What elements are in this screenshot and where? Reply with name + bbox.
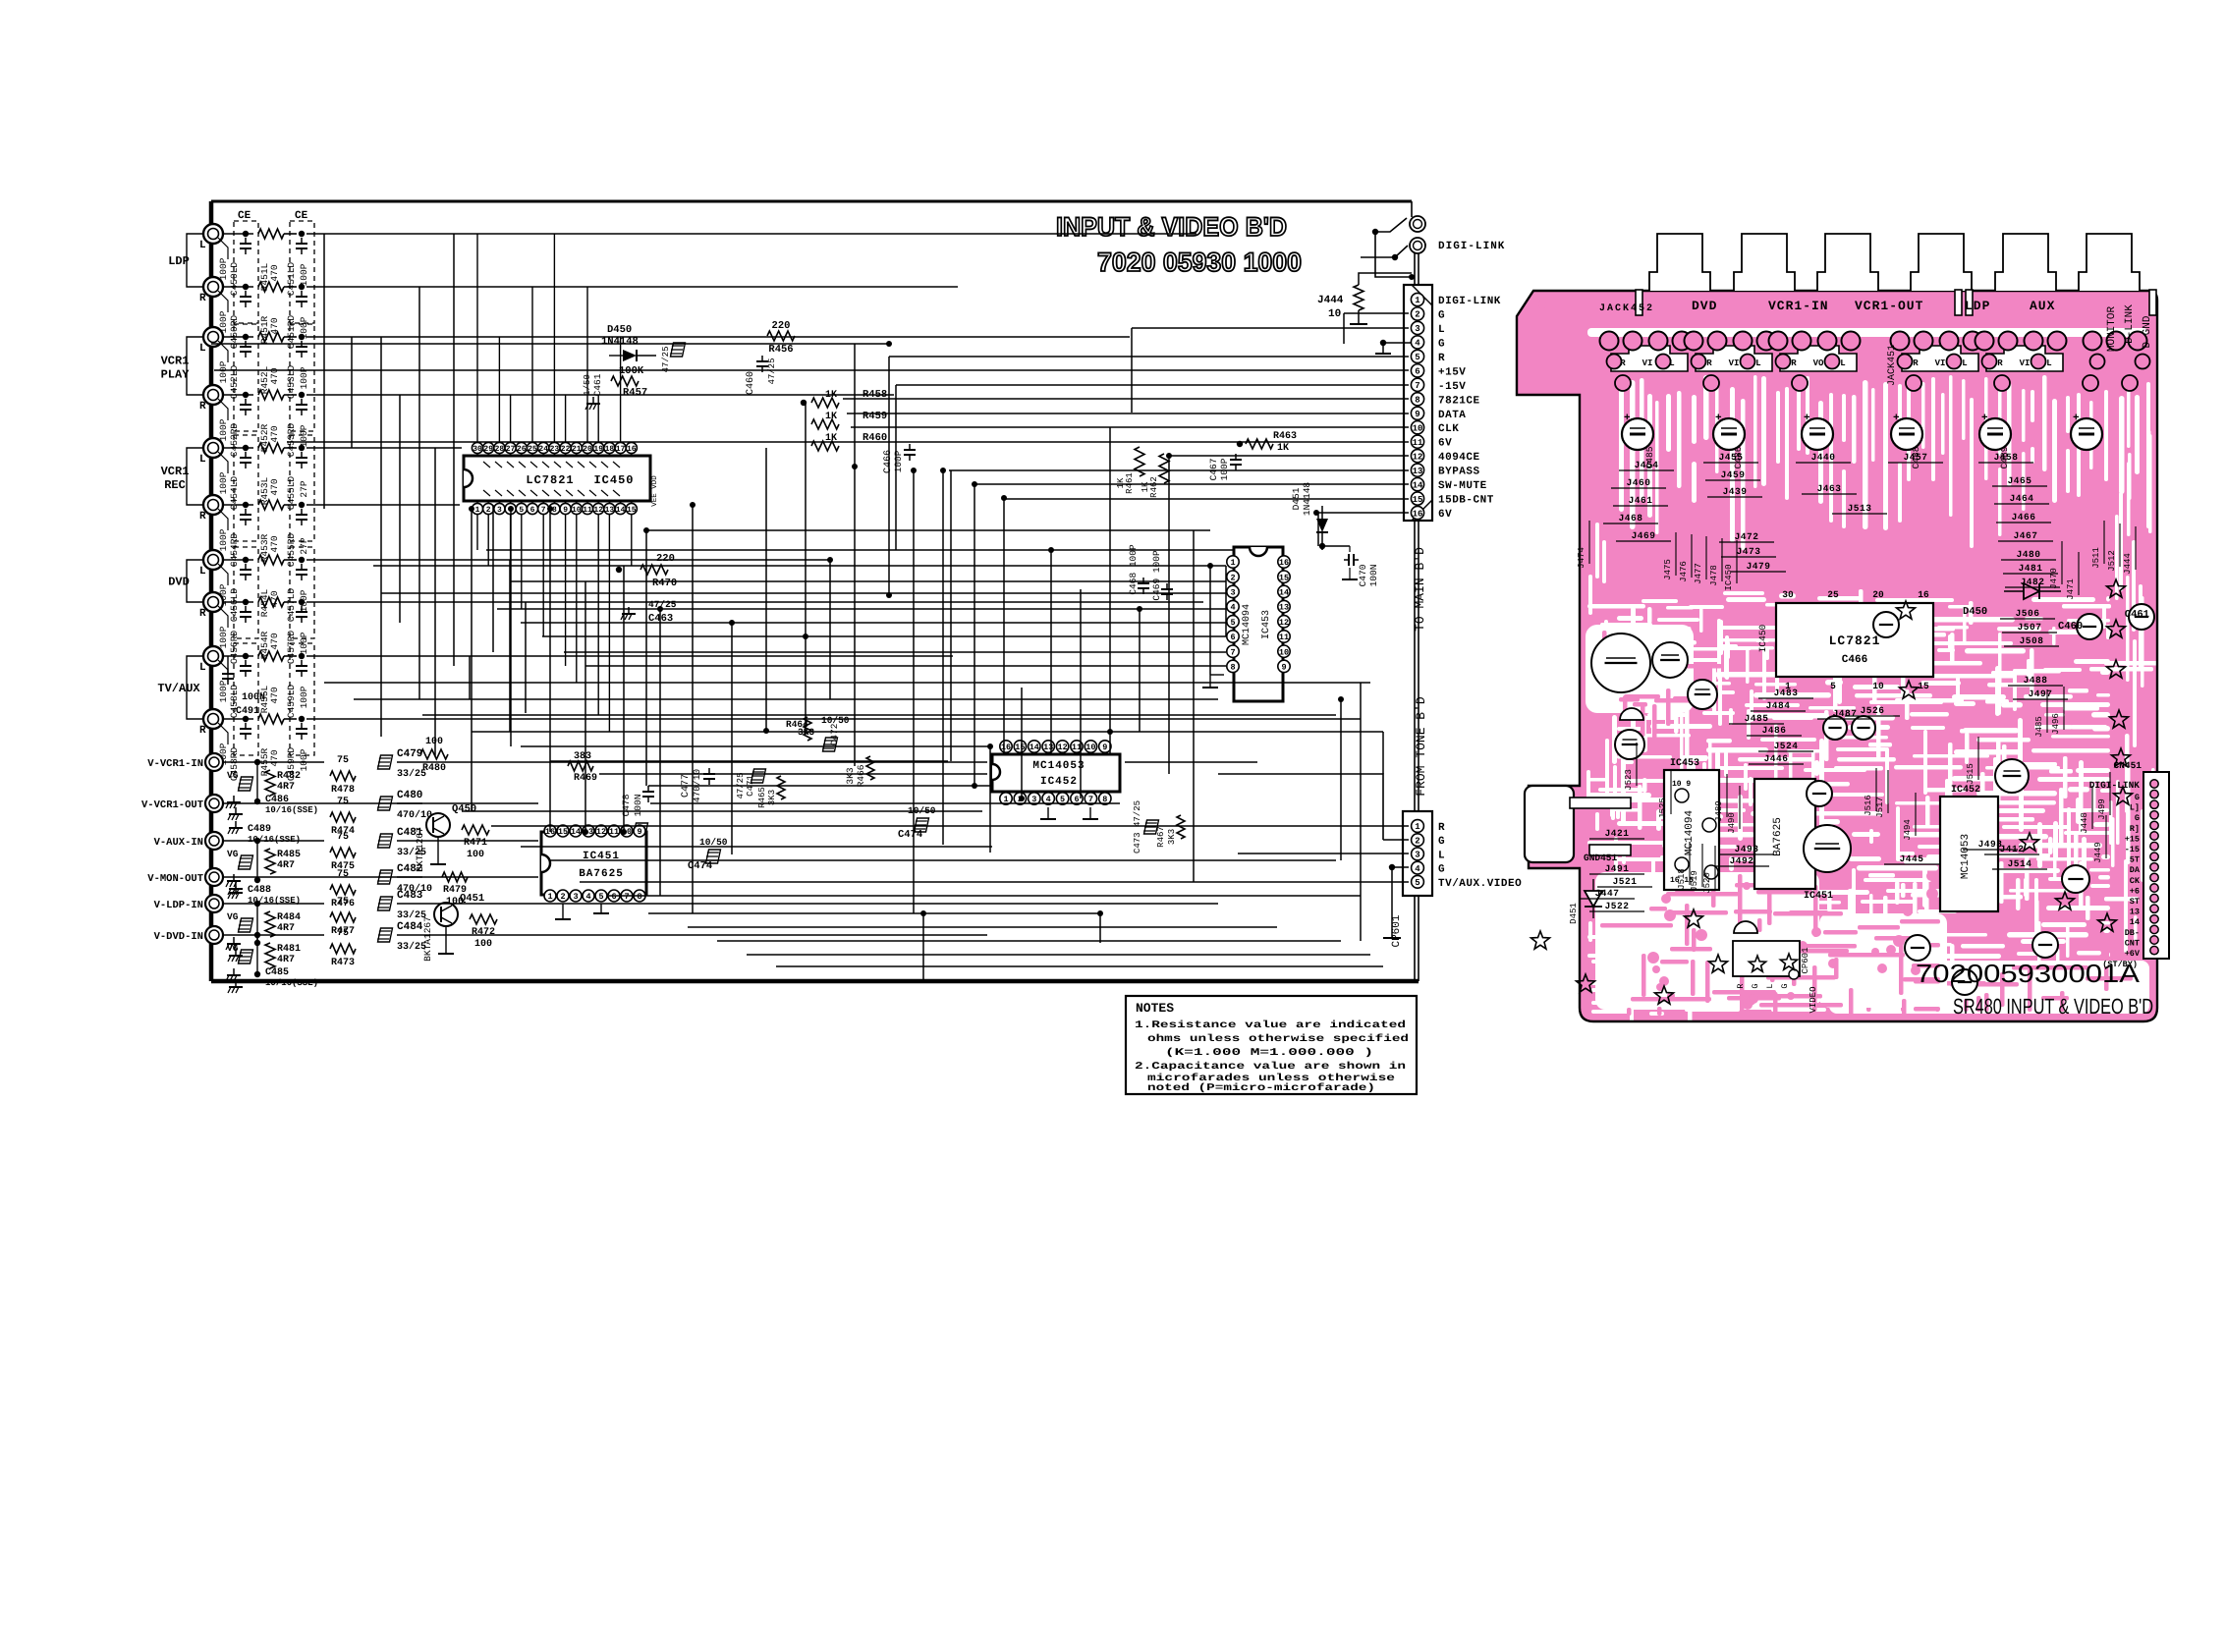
svg-text:J490: J490 bbox=[1727, 812, 1737, 834]
svg-text:(K=1.000 M=1.000.000 ): (K=1.000 M=1.000.000 ) bbox=[1165, 1047, 1373, 1059]
svg-text:J446: J446 bbox=[1764, 753, 1789, 764]
svg-text:C456LD: C456LD bbox=[229, 588, 240, 623]
svg-text:100P: 100P bbox=[299, 748, 309, 771]
svg-text:R: R bbox=[1997, 358, 2003, 368]
svg-text:V-LDP-IN: V-LDP-IN bbox=[154, 900, 203, 911]
svg-text:R478: R478 bbox=[331, 785, 355, 796]
svg-text:DVD: DVD bbox=[1692, 299, 1717, 313]
svg-text:VG: VG bbox=[227, 911, 239, 922]
svg-text:C451LD: C451LD bbox=[286, 262, 297, 297]
svg-text:+15V: +15V bbox=[1438, 366, 1466, 378]
svg-text:R: R bbox=[199, 401, 206, 413]
svg-text:CE: CE bbox=[295, 210, 308, 222]
svg-text:DB-: DB- bbox=[2125, 928, 2140, 938]
svg-text:R462: R462 bbox=[1149, 476, 1159, 498]
svg-text:C467: C467 bbox=[1208, 459, 1219, 481]
svg-text:75: 75 bbox=[337, 797, 349, 807]
svg-text:C474: C474 bbox=[688, 860, 712, 872]
svg-text:D451: D451 bbox=[1569, 903, 1579, 924]
svg-text:9: 9 bbox=[637, 827, 641, 837]
svg-text:MC14053: MC14053 bbox=[1960, 834, 1972, 879]
svg-text:100: 100 bbox=[467, 850, 484, 860]
svg-text:R456: R456 bbox=[768, 344, 793, 356]
svg-text:L: L bbox=[1669, 358, 1674, 368]
svg-text:75: 75 bbox=[337, 755, 349, 766]
svg-text:17: 17 bbox=[616, 445, 626, 454]
svg-text:C485: C485 bbox=[265, 967, 289, 978]
svg-text:J488: J488 bbox=[2024, 675, 2048, 686]
svg-text:J454: J454 bbox=[1635, 460, 1659, 470]
svg-text:J474: J474 bbox=[1577, 547, 1586, 569]
svg-text:9: 9 bbox=[1102, 743, 1107, 752]
svg-text:C455RD: C455RD bbox=[286, 533, 297, 568]
svg-text:C489: C489 bbox=[248, 824, 271, 835]
svg-text:C478: C478 bbox=[621, 794, 632, 816]
svg-text:C466: C466 bbox=[1842, 654, 1867, 666]
svg-text:L: L bbox=[199, 454, 206, 466]
svg-text:7: 7 bbox=[1230, 647, 1235, 657]
svg-text:J439: J439 bbox=[1723, 486, 1748, 497]
svg-text:J445: J445 bbox=[1900, 854, 1924, 864]
svg-text:VG: VG bbox=[227, 849, 239, 859]
svg-text:J522: J522 bbox=[1605, 901, 1630, 911]
svg-text:2: 2 bbox=[560, 892, 565, 902]
svg-text:30: 30 bbox=[473, 445, 482, 454]
svg-text:J470: J470 bbox=[2049, 568, 2059, 589]
svg-text:5T: 5T bbox=[2130, 855, 2140, 865]
svg-text:VG: VG bbox=[227, 770, 239, 781]
svg-text:220: 220 bbox=[656, 553, 675, 565]
svg-text:VI: VI bbox=[2020, 358, 2031, 368]
svg-text:G: G bbox=[2135, 793, 2140, 802]
svg-text:SR480 INPUT & VIDEO B'D: SR480 INPUT & VIDEO B'D bbox=[1953, 994, 2153, 1019]
svg-text:R: R bbox=[1736, 983, 1746, 988]
svg-text:V-AUX-IN: V-AUX-IN bbox=[154, 837, 203, 849]
svg-text:22: 22 bbox=[561, 445, 571, 454]
svg-text:10/16(SSE): 10/16(SSE) bbox=[265, 805, 318, 815]
svg-text:2: 2 bbox=[486, 506, 491, 515]
svg-text:D450: D450 bbox=[1963, 606, 1987, 618]
svg-text:3K3: 3K3 bbox=[1167, 829, 1177, 845]
svg-text:27P: 27P bbox=[299, 480, 309, 497]
svg-text:VG: VG bbox=[227, 943, 239, 954]
svg-text:D450: D450 bbox=[607, 324, 632, 336]
svg-text:+6: +6 bbox=[2130, 886, 2140, 896]
svg-text:470: 470 bbox=[269, 264, 280, 281]
svg-text:1: 1 bbox=[547, 892, 552, 902]
svg-text:R484: R484 bbox=[277, 912, 301, 923]
svg-text:J513: J513 bbox=[1848, 503, 1872, 514]
svg-text:470: 470 bbox=[269, 749, 280, 766]
svg-text:AUX: AUX bbox=[2030, 299, 2055, 313]
svg-text:10: 10 bbox=[572, 506, 582, 515]
svg-text:20: 20 bbox=[583, 445, 592, 454]
svg-text:J515: J515 bbox=[1966, 763, 1976, 785]
svg-text:100P: 100P bbox=[299, 686, 309, 708]
svg-text:C457LD: C457LD bbox=[286, 588, 297, 623]
svg-text:J519: J519 bbox=[1690, 870, 1699, 892]
svg-text:100P: 100P bbox=[299, 263, 309, 286]
svg-text:3: 3 bbox=[1415, 851, 1419, 860]
svg-text:DATA: DATA bbox=[1438, 410, 1466, 421]
svg-text:21: 21 bbox=[572, 445, 582, 454]
svg-text:INPUT & VIDEO B'D: INPUT & VIDEO B'D bbox=[1056, 212, 1287, 242]
svg-text:8: 8 bbox=[637, 892, 641, 902]
svg-text:J472: J472 bbox=[1735, 531, 1759, 542]
svg-text:100: 100 bbox=[425, 737, 443, 747]
svg-text:J459: J459 bbox=[1721, 469, 1746, 480]
svg-text:7020 05930 1000: 7020 05930 1000 bbox=[1097, 248, 1302, 277]
svg-text:PLAY: PLAY bbox=[161, 368, 191, 382]
svg-text:J471: J471 bbox=[2066, 578, 2076, 600]
svg-text:R485: R485 bbox=[277, 850, 301, 860]
svg-text:5: 5 bbox=[519, 506, 524, 515]
svg-text:L: L bbox=[1755, 358, 1760, 368]
svg-text:J514: J514 bbox=[2008, 858, 2032, 869]
svg-text:R457: R457 bbox=[623, 387, 647, 399]
svg-text:L: L bbox=[199, 566, 206, 578]
svg-text:J478: J478 bbox=[1709, 565, 1719, 586]
svg-text:C484: C484 bbox=[397, 921, 423, 933]
svg-text:R467: R467 bbox=[1156, 826, 1166, 848]
svg-text:J493: J493 bbox=[1735, 844, 1759, 854]
svg-text:R480: R480 bbox=[422, 763, 446, 774]
svg-text:5: 5 bbox=[598, 892, 603, 902]
svg-text:470: 470 bbox=[269, 317, 280, 334]
svg-text:IC450: IC450 bbox=[593, 473, 634, 487]
svg-text:2.Capacitance value are shown: 2.Capacitance value are shown in bbox=[1135, 1061, 1406, 1073]
svg-text:J475: J475 bbox=[1663, 559, 1673, 580]
svg-text:L: L bbox=[1840, 358, 1845, 368]
svg-text:4: 4 bbox=[585, 892, 590, 902]
svg-text:J524: J524 bbox=[1774, 741, 1799, 751]
svg-text:J485: J485 bbox=[1745, 713, 1769, 724]
svg-text:6: 6 bbox=[1415, 367, 1419, 377]
svg-text:J463: J463 bbox=[1817, 483, 1842, 494]
svg-text:J477: J477 bbox=[1694, 563, 1703, 584]
svg-text:+: + bbox=[2073, 413, 2080, 424]
svg-text:MC14094: MC14094 bbox=[1242, 604, 1252, 645]
svg-text:16: 16 bbox=[1413, 509, 1423, 519]
svg-text:C479: C479 bbox=[397, 748, 422, 760]
svg-text:L: L bbox=[1962, 358, 1967, 368]
svg-text:4R7: 4R7 bbox=[277, 955, 295, 965]
svg-text:G: G bbox=[1780, 983, 1790, 988]
svg-text:C480: C480 bbox=[397, 790, 422, 801]
svg-text:10/16(SSE): 10/16(SSE) bbox=[248, 835, 301, 845]
svg-text:J497: J497 bbox=[2029, 688, 2053, 699]
svg-text:4: 4 bbox=[1230, 603, 1235, 613]
svg-text:14: 14 bbox=[616, 506, 626, 515]
svg-text:J512: J512 bbox=[2107, 550, 2117, 572]
svg-text:SW-MUTE: SW-MUTE bbox=[1438, 480, 1487, 492]
svg-text:MC14053: MC14053 bbox=[1032, 760, 1085, 772]
svg-text:L: L bbox=[2046, 358, 2051, 368]
svg-text:G: G bbox=[1438, 309, 1445, 321]
svg-text:R: R bbox=[1620, 358, 1626, 368]
svg-text:27P: 27P bbox=[299, 537, 309, 554]
svg-text:R481: R481 bbox=[277, 944, 301, 955]
svg-text:J481: J481 bbox=[2019, 563, 2043, 574]
svg-text:47/25: 47/25 bbox=[661, 346, 671, 372]
svg-text:C488: C488 bbox=[248, 885, 271, 896]
svg-text:R466: R466 bbox=[856, 764, 866, 787]
svg-text:27: 27 bbox=[506, 445, 516, 454]
svg-text:13: 13 bbox=[2130, 908, 2140, 917]
svg-text:100P: 100P bbox=[893, 450, 904, 472]
svg-text:R: R bbox=[199, 725, 206, 737]
svg-text:CLK: CLK bbox=[1438, 423, 1459, 435]
svg-text:4094CE: 4094CE bbox=[1438, 452, 1480, 464]
svg-text:MONITOR: MONITOR bbox=[2106, 306, 2118, 353]
svg-text:J466: J466 bbox=[2012, 512, 2036, 523]
svg-text:TV/AUX.VIDEO: TV/AUX.VIDEO bbox=[1438, 878, 1522, 890]
svg-text:J523: J523 bbox=[1624, 769, 1634, 791]
svg-text:1: 1 bbox=[1230, 558, 1235, 568]
svg-text:R472: R472 bbox=[472, 927, 495, 938]
svg-text:VCR1-OUT: VCR1-OUT bbox=[1855, 299, 1923, 313]
svg-text:J448: J448 bbox=[2080, 812, 2089, 834]
svg-text:J494: J494 bbox=[1903, 819, 1913, 841]
svg-text:15: 15 bbox=[558, 827, 568, 837]
svg-text:BKTA1267: BKTA1267 bbox=[415, 827, 425, 872]
svg-text:1K: 1K bbox=[1277, 443, 1289, 454]
svg-text:C456RD: C456RD bbox=[229, 631, 240, 665]
svg-text:L: L bbox=[1438, 324, 1445, 336]
svg-text:R: R bbox=[1791, 358, 1797, 368]
svg-text:9: 9 bbox=[1415, 410, 1419, 419]
svg-text:J455: J455 bbox=[1719, 452, 1744, 463]
svg-text:C450LD: C450LD bbox=[229, 262, 240, 297]
svg-text:3: 3 bbox=[1415, 324, 1419, 334]
svg-text:R: R bbox=[1438, 353, 1445, 364]
svg-text:9: 9 bbox=[1281, 662, 1286, 672]
svg-text:J517: J517 bbox=[1875, 797, 1885, 818]
svg-text:J461: J461 bbox=[1629, 495, 1653, 506]
svg-text:IC452: IC452 bbox=[1040, 776, 1078, 788]
svg-text:100P: 100P bbox=[218, 626, 229, 648]
svg-text:REC: REC bbox=[164, 478, 186, 492]
svg-text:100P: 100P bbox=[299, 632, 309, 654]
svg-text:C460: C460 bbox=[2058, 621, 2083, 633]
svg-text:14: 14 bbox=[2130, 917, 2140, 927]
svg-text:IC450: IC450 bbox=[1724, 564, 1734, 590]
svg-text:10/16(SSE): 10/16(SSE) bbox=[265, 978, 318, 988]
svg-text:10: 10 bbox=[1872, 681, 1884, 691]
svg-text:+6V: +6V bbox=[2125, 949, 2141, 959]
svg-text:J458: J458 bbox=[1994, 452, 2019, 463]
svg-text:14: 14 bbox=[1279, 587, 1289, 597]
svg-text:TO MAIN B'D: TO MAIN B'D bbox=[1413, 547, 1427, 632]
svg-text:J526: J526 bbox=[1861, 705, 1885, 716]
svg-text:noted (P=micro-microfarade): noted (P=micro-microfarade) bbox=[1147, 1082, 1375, 1094]
svg-text:100N: 100N bbox=[1368, 565, 1379, 587]
svg-text:L: L bbox=[1438, 850, 1445, 861]
svg-text:3K3: 3K3 bbox=[845, 767, 856, 784]
svg-text:C483: C483 bbox=[397, 890, 423, 902]
svg-text:100N: 100N bbox=[242, 692, 265, 703]
svg-text:J469: J469 bbox=[1632, 530, 1656, 541]
svg-text:J492: J492 bbox=[1730, 855, 1754, 866]
svg-text:14: 14 bbox=[1030, 743, 1039, 752]
svg-text:7: 7 bbox=[624, 892, 629, 902]
svg-text:7: 7 bbox=[1415, 381, 1419, 391]
svg-text:1: 1 bbox=[475, 506, 480, 515]
svg-text:VEE VDD: VEE VDD bbox=[651, 475, 659, 507]
svg-text:C452RD: C452RD bbox=[229, 423, 240, 458]
svg-text:J457: J457 bbox=[1904, 452, 1928, 463]
svg-text:8: 8 bbox=[1415, 396, 1419, 406]
svg-text:100P: 100P bbox=[218, 418, 229, 441]
svg-text:5: 5 bbox=[1415, 353, 1419, 362]
svg-text:10: 10 bbox=[1413, 423, 1423, 433]
svg-text:BKTA1267: BKTA1267 bbox=[422, 916, 433, 962]
svg-text:C473 47/25: C473 47/25 bbox=[1133, 800, 1142, 854]
svg-text:R471: R471 bbox=[464, 838, 487, 849]
svg-text:BA7625: BA7625 bbox=[579, 868, 624, 880]
svg-text:VCR1: VCR1 bbox=[161, 465, 190, 478]
svg-text:29: 29 bbox=[483, 445, 493, 454]
svg-text:16: 16 bbox=[1001, 743, 1011, 752]
svg-text:C459LD: C459LD bbox=[286, 685, 297, 719]
svg-text:-15: -15 bbox=[2125, 845, 2140, 854]
svg-text:12: 12 bbox=[596, 827, 606, 837]
svg-text:R: R bbox=[199, 608, 206, 620]
svg-text:IC452: IC452 bbox=[1951, 785, 1980, 796]
svg-text:12: 12 bbox=[1057, 743, 1067, 752]
svg-text:30: 30 bbox=[1782, 589, 1794, 600]
svg-text:BA7625: BA7625 bbox=[1772, 817, 1784, 856]
svg-text:VCR1: VCR1 bbox=[161, 355, 190, 368]
svg-text:1: 1 bbox=[1415, 822, 1420, 832]
svg-text:R479: R479 bbox=[443, 885, 467, 896]
svg-text:4R7: 4R7 bbox=[277, 923, 295, 934]
svg-text:47/25: 47/25 bbox=[767, 358, 777, 384]
svg-text:20: 20 bbox=[1872, 589, 1884, 600]
svg-text:15: 15 bbox=[1279, 573, 1289, 582]
svg-text:4: 4 bbox=[1415, 339, 1420, 349]
svg-text:2: 2 bbox=[1230, 573, 1235, 582]
svg-text:+: + bbox=[1893, 413, 1900, 424]
svg-text:J476: J476 bbox=[1679, 561, 1689, 582]
svg-text:R461: R461 bbox=[1125, 472, 1135, 494]
svg-text:100P: 100P bbox=[299, 424, 309, 447]
svg-text:4: 4 bbox=[1415, 864, 1420, 874]
svg-text:+: + bbox=[1981, 413, 1988, 424]
svg-text:VI: VI bbox=[1642, 358, 1653, 368]
svg-text:IC453: IC453 bbox=[1261, 610, 1272, 639]
svg-text:R: R bbox=[1706, 358, 1712, 368]
svg-text:D-LINK: D-LINK bbox=[2124, 304, 2136, 344]
svg-text:6V: 6V bbox=[1438, 509, 1452, 521]
svg-text:5: 5 bbox=[1830, 681, 1836, 691]
svg-text:ST: ST bbox=[2130, 897, 2140, 907]
svg-text:J520: J520 bbox=[1702, 872, 1712, 894]
svg-text:L]: L] bbox=[2130, 803, 2140, 813]
svg-text:6: 6 bbox=[530, 506, 535, 515]
svg-text:470: 470 bbox=[269, 633, 280, 649]
svg-text:8: 8 bbox=[552, 506, 557, 515]
svg-text:10/16(SSE): 10/16(SSE) bbox=[248, 896, 301, 906]
svg-text:J444: J444 bbox=[2123, 553, 2133, 575]
svg-text:J449: J449 bbox=[2093, 842, 2103, 863]
svg-text:13: 13 bbox=[1413, 467, 1423, 476]
svg-text:Q450: Q450 bbox=[452, 803, 476, 815]
svg-text:NOTES: NOTES bbox=[1136, 1001, 1174, 1016]
svg-text:10: 10 bbox=[1085, 743, 1095, 752]
svg-text:470: 470 bbox=[269, 535, 280, 552]
svg-text:ohms unless otherwise specifie: ohms unless otherwise specified bbox=[1147, 1033, 1409, 1045]
svg-text:12: 12 bbox=[1413, 452, 1423, 462]
svg-text:FROM TONE B'D: FROM TONE B'D bbox=[1414, 696, 1428, 797]
svg-text:R463: R463 bbox=[1273, 431, 1297, 442]
svg-text:100: 100 bbox=[474, 939, 492, 950]
svg-text:CP601: CP601 bbox=[1391, 914, 1403, 947]
svg-text:J444: J444 bbox=[1317, 295, 1344, 306]
svg-text:R473: R473 bbox=[331, 958, 355, 968]
svg-text:3: 3 bbox=[573, 892, 578, 902]
svg-text:J465: J465 bbox=[2008, 475, 2032, 486]
svg-text:100P: 100P bbox=[218, 257, 229, 280]
svg-text:J486: J486 bbox=[1762, 725, 1787, 736]
svg-text:JACK452: JACK452 bbox=[1599, 303, 1654, 314]
svg-text:DIGI-LINK: DIGI-LINK bbox=[1438, 241, 1505, 252]
svg-text:L: L bbox=[199, 240, 206, 251]
svg-text:VCR1-IN: VCR1-IN bbox=[1768, 299, 1829, 313]
svg-text:C461: C461 bbox=[592, 373, 603, 396]
svg-text:9: 9 bbox=[563, 506, 568, 515]
svg-text:14: 14 bbox=[571, 827, 581, 837]
svg-text:6: 6 bbox=[1230, 633, 1235, 642]
svg-text:24: 24 bbox=[538, 445, 548, 454]
svg-text:-15V: -15V bbox=[1438, 381, 1466, 393]
svg-text:D-GND: D-GND bbox=[2142, 315, 2153, 348]
svg-text:J482: J482 bbox=[2021, 577, 2045, 587]
svg-text:J483: J483 bbox=[1774, 688, 1799, 698]
svg-text:J489: J489 bbox=[1714, 800, 1724, 822]
svg-text:BYPASS: BYPASS bbox=[1438, 467, 1480, 478]
svg-text:GND451: GND451 bbox=[1584, 853, 1618, 863]
svg-text:LDP: LDP bbox=[1965, 299, 1990, 313]
svg-text:IC451: IC451 bbox=[1804, 891, 1833, 902]
svg-text:R: R bbox=[1913, 358, 1919, 368]
svg-text:R465: R465 bbox=[757, 787, 767, 808]
svg-text:J473: J473 bbox=[1737, 546, 1761, 557]
svg-text:10: 10 bbox=[1279, 647, 1289, 657]
svg-text:R482: R482 bbox=[277, 771, 301, 782]
svg-text:LDP: LDP bbox=[168, 254, 190, 268]
svg-text:15: 15 bbox=[1015, 743, 1025, 752]
svg-text:G: G bbox=[1438, 864, 1445, 876]
svg-text:LC7821: LC7821 bbox=[526, 473, 574, 487]
svg-text:G: G bbox=[1438, 338, 1445, 350]
svg-text:1: 1 bbox=[1415, 296, 1420, 305]
svg-text:C470: C470 bbox=[1358, 564, 1368, 586]
svg-text:1.Resistance value are indicat: 1.Resistance value are indicated bbox=[1135, 1019, 1406, 1031]
svg-text:V-VCR1-OUT: V-VCR1-OUT bbox=[141, 799, 203, 811]
svg-text:11: 11 bbox=[1413, 438, 1423, 448]
svg-text:G: G bbox=[1751, 983, 1760, 988]
svg-text:75: 75 bbox=[337, 928, 349, 939]
svg-text:TV/AUX: TV/AUX bbox=[157, 682, 200, 695]
svg-text:J464: J464 bbox=[2010, 493, 2034, 504]
svg-text:C453RD: C453RD bbox=[286, 423, 297, 458]
svg-text:VI: VI bbox=[1729, 358, 1740, 368]
svg-text:15DB-CNT: 15DB-CNT bbox=[1438, 495, 1494, 507]
svg-text:R459: R459 bbox=[863, 411, 887, 422]
svg-text:L: L bbox=[1765, 983, 1775, 988]
svg-text:C474: C474 bbox=[898, 829, 922, 841]
